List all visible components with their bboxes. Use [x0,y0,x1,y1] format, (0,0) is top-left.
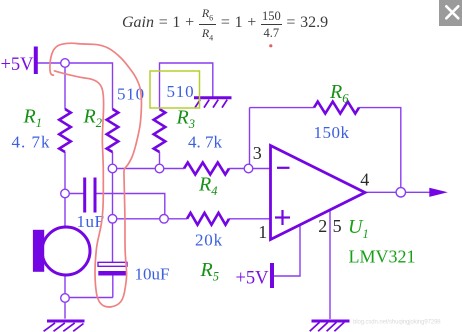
svg-text:R1: R1 [23,105,42,130]
svg-text:R4: R4 [198,174,217,199]
svg-text:R2: R2 [83,105,102,130]
svg-text:4. 7k: 4. 7k [12,133,51,152]
svg-text:510: 510 [167,82,195,101]
svg-text:+5V: +5V [236,269,270,289]
svg-text:R5: R5 [200,259,219,284]
svg-text:R3: R3 [176,107,195,132]
svg-text:1: 1 [258,222,267,242]
svg-text:3: 3 [253,143,262,163]
svg-text:150k: 150k [314,123,350,142]
svg-text:blog.csdn.net/shuqingjoking972: blog.csdn.net/shuqingjoking97298 [353,320,441,326]
svg-text:4: 4 [360,169,369,189]
svg-text:LMV321: LMV321 [349,247,416,267]
svg-text:4. 7k: 4. 7k [188,133,223,152]
svg-text:2: 2 [318,216,327,236]
svg-text:+5V: +5V [1,55,35,75]
svg-text:5: 5 [333,216,342,236]
svg-text:10uF: 10uF [135,265,170,284]
svg-text:20k: 20k [195,231,223,250]
svg-text:U1: U1 [348,216,369,241]
svg-text:R6: R6 [329,81,349,106]
